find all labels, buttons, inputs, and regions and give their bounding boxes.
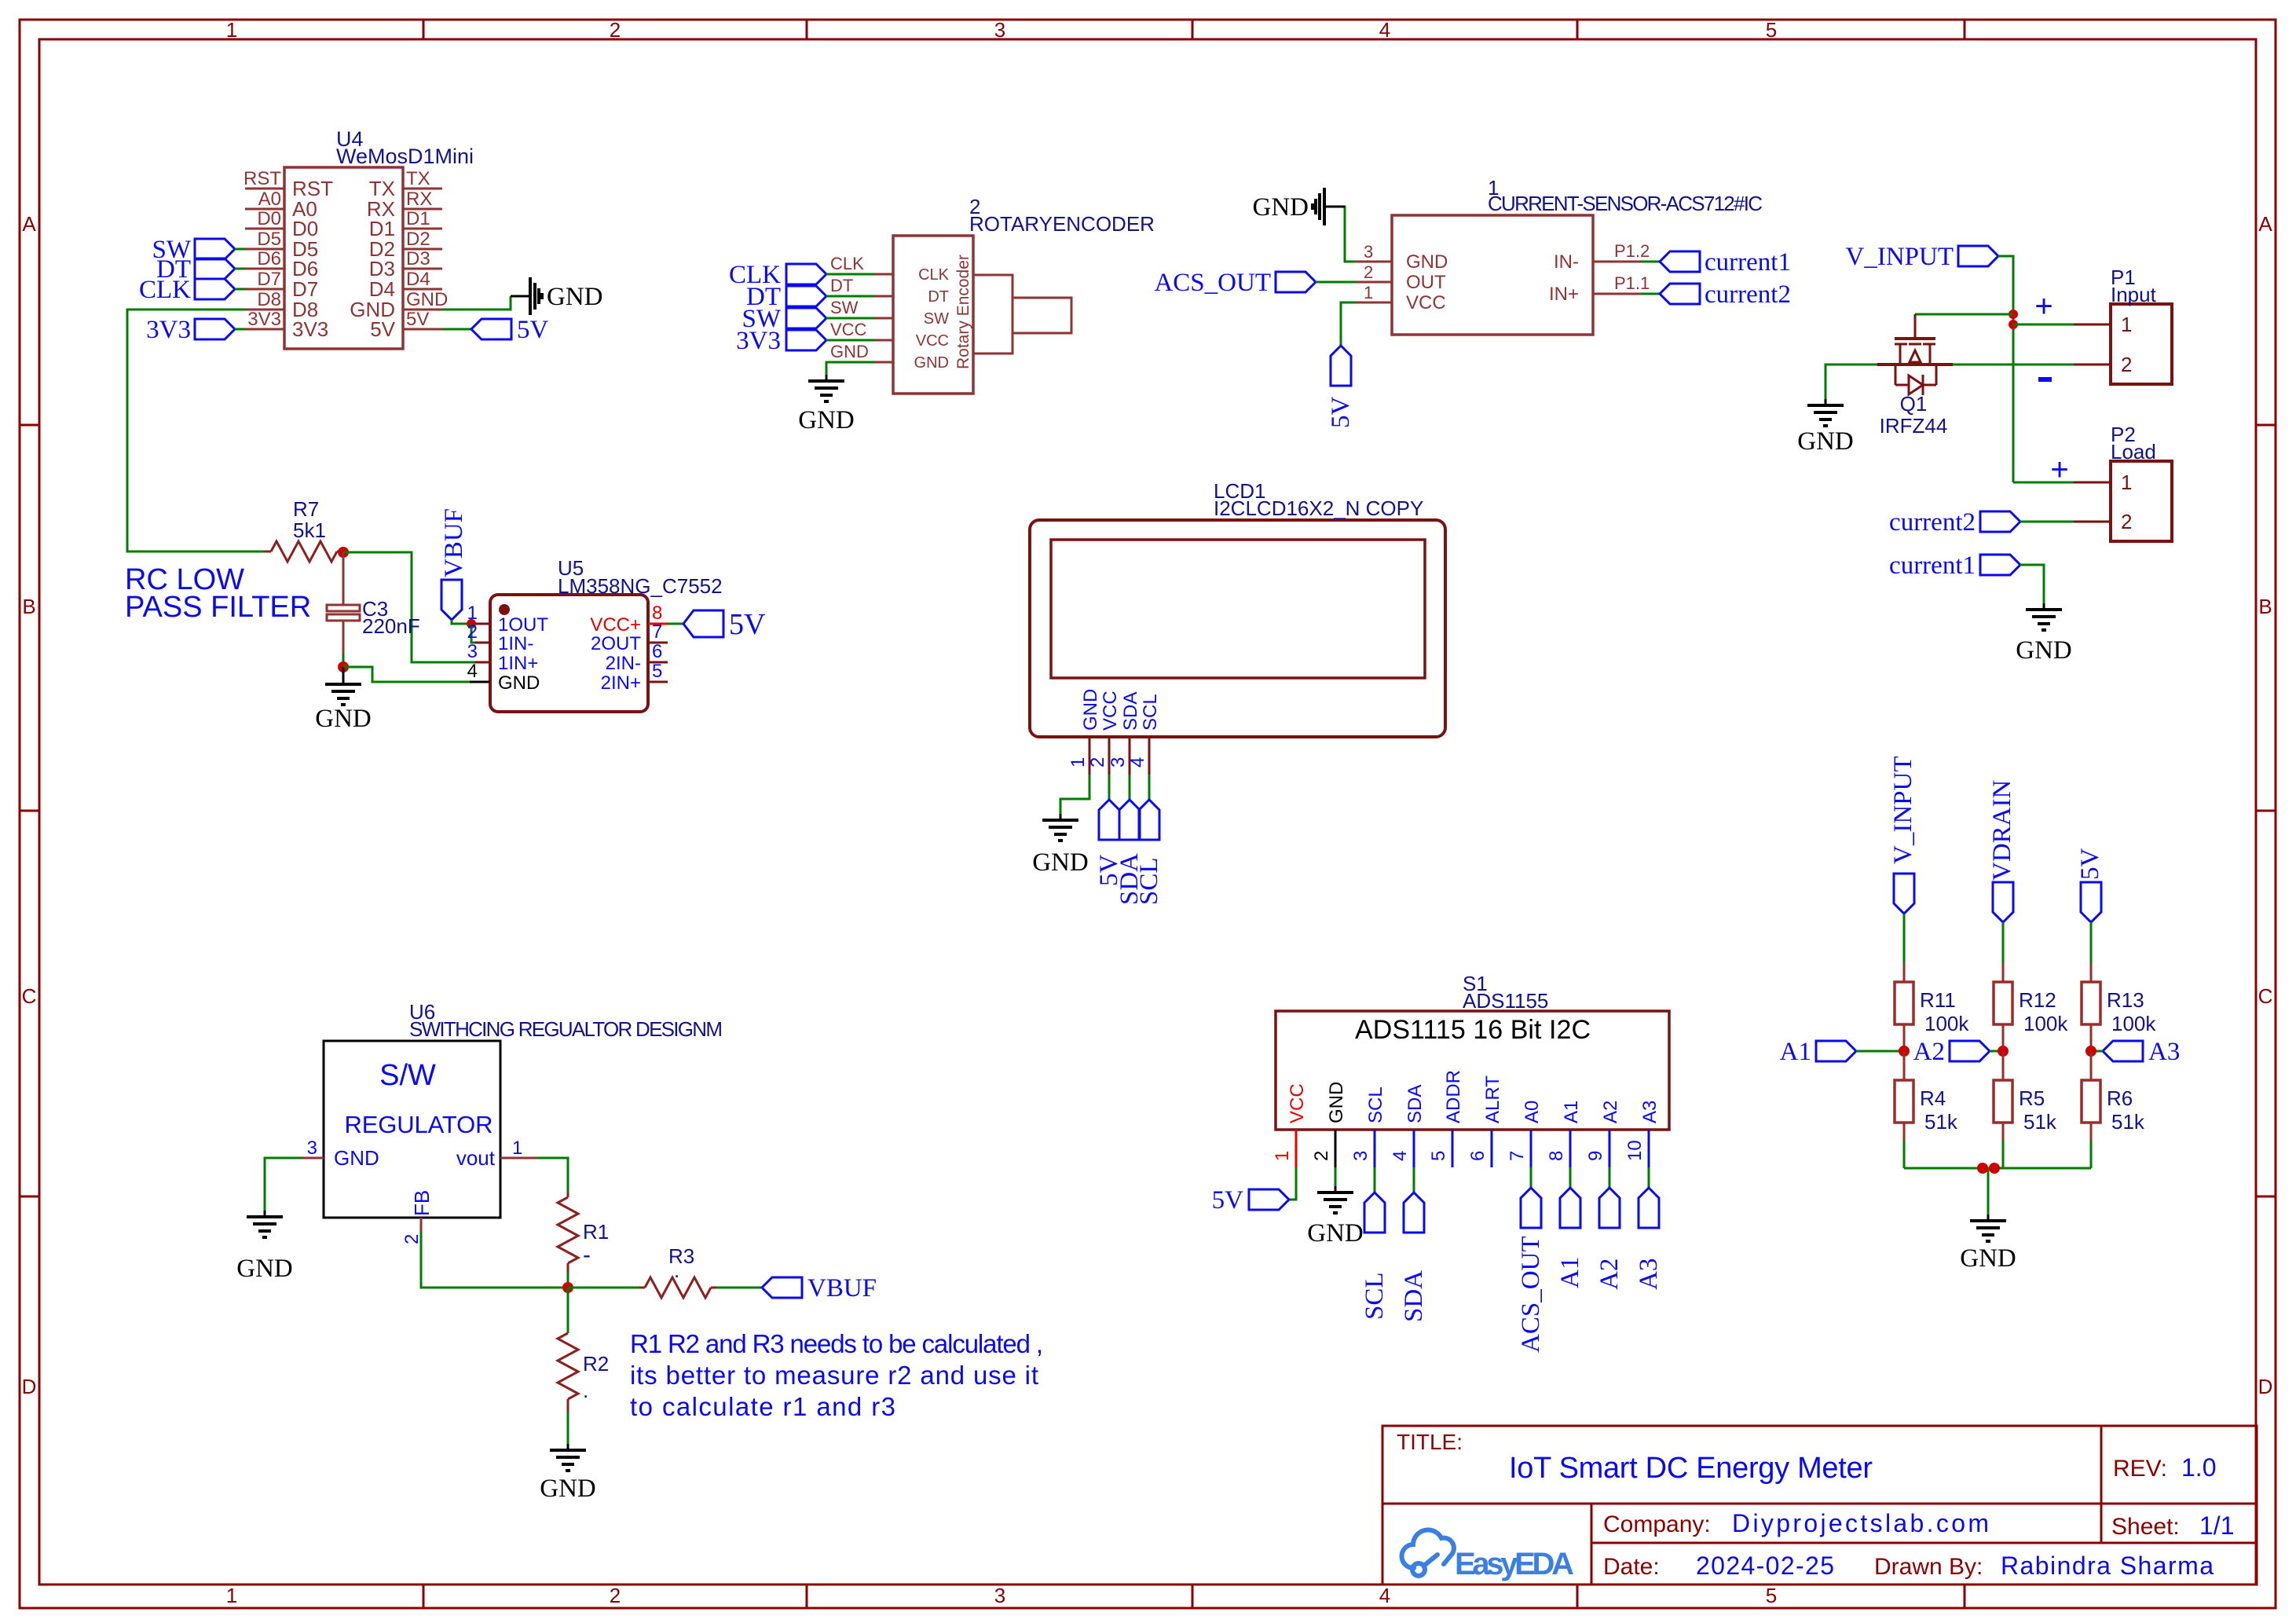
transistor Q1 IRFZ44 bbox=[1877, 314, 1953, 438]
svg-text:SDA: SDA bbox=[1404, 1085, 1426, 1123]
svg-text:3V3: 3V3 bbox=[247, 309, 281, 330]
svg-text:2: 2 bbox=[401, 1234, 423, 1244]
svg-text:A: A bbox=[22, 212, 36, 236]
svg-text:2: 2 bbox=[610, 18, 621, 42]
svg-text:Date:: Date: bbox=[1603, 1554, 1660, 1580]
net flag SW at encoder bbox=[742, 305, 875, 333]
svg-text:TITLE:: TITLE: bbox=[1397, 1430, 1463, 1454]
svg-text:7: 7 bbox=[1507, 1151, 1528, 1161]
node A2 junction bbox=[1998, 1046, 2009, 1057]
svg-text:2: 2 bbox=[1311, 1151, 1332, 1161]
svg-text:GND: GND bbox=[540, 1475, 596, 1503]
svg-text:5V: 5V bbox=[1327, 397, 1355, 429]
svg-text:R1 R2 and R3 needs to be calcu: R1 R2 and R3 needs to be calculated , bbox=[630, 1329, 1043, 1358]
wire vout to R1 bbox=[537, 1158, 568, 1193]
net flag ACS_OUT at ADS bbox=[1517, 1167, 1545, 1353]
svg-text:4: 4 bbox=[1390, 1151, 1411, 1161]
svg-text:D: D bbox=[22, 1375, 37, 1398]
resistor R6 51k bbox=[2082, 1051, 2145, 1141]
wire node to R2 bbox=[567, 1288, 569, 1333]
ground GND at LCD bbox=[1032, 814, 1089, 877]
svg-text:Rabindra Sharma: Rabindra Sharma bbox=[2001, 1552, 2214, 1580]
svg-text:current1: current1 bbox=[1705, 248, 1791, 277]
node V_INPUT/P1 junction bbox=[2009, 320, 2018, 329]
svg-text:100k: 100k bbox=[1924, 1012, 1969, 1035]
wire U6 GND bbox=[265, 1158, 302, 1211]
svg-text:2IN+: 2IN+ bbox=[601, 672, 641, 694]
svg-text:8: 8 bbox=[1546, 1151, 1567, 1161]
svg-text:its better to measure r2 and u: its better to measure r2 and use it bbox=[630, 1361, 1038, 1390]
svg-text:3V3: 3V3 bbox=[736, 327, 781, 355]
node R7/C3 junction bbox=[338, 547, 349, 558]
svg-text:2: 2 bbox=[2121, 353, 2132, 376]
MCU U4 WeMosD1Mini bbox=[244, 127, 474, 349]
wire encoder GND bbox=[826, 362, 874, 375]
svg-text:5: 5 bbox=[1766, 18, 1777, 42]
svg-text:GND: GND bbox=[1307, 1219, 1364, 1247]
net flag SDA at LCD bbox=[1115, 775, 1144, 905]
svg-text:+: + bbox=[2034, 289, 2052, 324]
ground GND at U4 bbox=[511, 277, 603, 315]
net flag current2 at P2 bbox=[1889, 508, 2074, 537]
svg-text:2: 2 bbox=[467, 621, 478, 643]
label minus P1 bbox=[2038, 377, 2052, 382]
svg-text:VCC: VCC bbox=[1287, 1083, 1308, 1123]
svg-text:RST: RST bbox=[244, 168, 281, 189]
svg-text:100k: 100k bbox=[2111, 1012, 2156, 1035]
svg-text:DT: DT bbox=[928, 288, 949, 306]
svg-text:3: 3 bbox=[994, 18, 1005, 42]
svg-text:R1: R1 bbox=[583, 1220, 609, 1244]
svg-text:D2: D2 bbox=[406, 229, 430, 250]
svg-text:GND: GND bbox=[236, 1255, 293, 1283]
svg-text:P1.1: P1.1 bbox=[1614, 273, 1650, 293]
svg-text:CLK: CLK bbox=[918, 266, 950, 284]
svg-text:A2: A2 bbox=[1913, 1038, 1945, 1066]
net flag SCL at ADS bbox=[1360, 1167, 1389, 1320]
svg-text:GND: GND bbox=[1253, 193, 1309, 222]
svg-text:to calculate r1 and r3: to calculate r1 and r3 bbox=[630, 1392, 895, 1421]
svg-text:2: 2 bbox=[610, 1584, 621, 1607]
net flag current1 to GND bbox=[1889, 551, 2044, 603]
svg-text:VCC: VCC bbox=[1100, 691, 1121, 731]
wire V_INPUT vertical bbox=[1998, 256, 2013, 482]
svg-text:A3: A3 bbox=[1639, 1101, 1661, 1123]
wire 5V to R13 bbox=[2090, 922, 2093, 963]
rotary encoder 2 ROTARYENCODER bbox=[830, 195, 1155, 394]
svg-text:D3: D3 bbox=[406, 248, 430, 269]
svg-text:GND: GND bbox=[830, 342, 869, 361]
EasyEDA logo bbox=[1401, 1530, 1574, 1581]
svg-text:2IN-: 2IN- bbox=[606, 653, 641, 674]
svg-text:CLK: CLK bbox=[830, 254, 864, 273]
svg-text:A2: A2 bbox=[1595, 1258, 1624, 1290]
regulator U6 SWITHCING REGUALTOR DESIGNM bbox=[302, 1000, 723, 1244]
svg-text:1: 1 bbox=[226, 18, 237, 42]
svg-text:ACS_OUT: ACS_OUT bbox=[1517, 1236, 1545, 1353]
ground GND at divider bbox=[1960, 1215, 2016, 1273]
svg-text:TX: TX bbox=[406, 168, 430, 189]
svg-text:P1.2: P1.2 bbox=[1614, 241, 1650, 261]
svg-text:GND: GND bbox=[798, 406, 855, 434]
svg-text:REGULATOR: REGULATOR bbox=[345, 1111, 493, 1138]
resistor R11 100k bbox=[1895, 963, 1969, 1051]
svg-text:.: . bbox=[674, 1258, 679, 1282]
net flag current2 at ACS bbox=[1641, 280, 1791, 309]
svg-text:SDA: SDA bbox=[1120, 692, 1141, 731]
svg-text:R4: R4 bbox=[1920, 1086, 1946, 1110]
ground GND at U6 bbox=[236, 1211, 293, 1283]
net flag VDRAIN bbox=[1988, 780, 2016, 922]
note RC LOW PASS FILTER bbox=[125, 563, 311, 624]
wire U4 GND bbox=[442, 296, 511, 310]
svg-text:VDRAIN: VDRAIN bbox=[1988, 780, 2016, 881]
svg-text:GND: GND bbox=[315, 705, 372, 733]
svg-text:1: 1 bbox=[2121, 313, 2132, 336]
wire junction to P1 pin1 bbox=[2013, 324, 2074, 326]
svg-text:2024-02-25: 2024-02-25 bbox=[1696, 1552, 1834, 1580]
svg-text:VBUF: VBUF bbox=[807, 1274, 877, 1302]
ground GND at encoder bbox=[798, 375, 855, 434]
svg-text:EasyEDA: EasyEDA bbox=[1455, 1547, 1574, 1581]
svg-text:R11: R11 bbox=[1920, 988, 1956, 1012]
svg-text:Diyprojectslab.com: Diyprojectslab.com bbox=[1732, 1509, 1989, 1537]
resistor R1 bbox=[558, 1193, 609, 1273]
wire divider ground bus bbox=[1904, 1168, 2091, 1215]
svg-text:Company:: Company: bbox=[1603, 1511, 1711, 1537]
svg-text:A0: A0 bbox=[1522, 1101, 1543, 1123]
svg-text:3: 3 bbox=[994, 1584, 1005, 1607]
svg-text:OUT: OUT bbox=[1406, 272, 1446, 293]
svg-text:Sheet:: Sheet: bbox=[2111, 1514, 2180, 1540]
ground GND at Q1 bbox=[1797, 399, 1854, 456]
wire C3 to ground node bbox=[342, 654, 345, 667]
svg-text:V_INPUT: V_INPUT bbox=[1889, 757, 1917, 865]
svg-text:GND: GND bbox=[547, 283, 603, 311]
svg-text:6: 6 bbox=[652, 641, 662, 662]
svg-text:ADDR: ADDR bbox=[1443, 1070, 1464, 1123]
net flag 5V at ACS bbox=[1327, 346, 1355, 428]
svg-text:A1: A1 bbox=[1556, 1257, 1584, 1288]
svg-text:D7: D7 bbox=[257, 269, 281, 290]
svg-text:4: 4 bbox=[467, 661, 478, 682]
svg-text:R7: R7 bbox=[293, 497, 319, 521]
label plus P2 bbox=[2050, 452, 2068, 487]
wire FB to node bbox=[421, 1232, 568, 1288]
svg-text:Rotary Encoder: Rotary Encoder bbox=[954, 255, 972, 369]
svg-text:VCC: VCC bbox=[1406, 292, 1446, 313]
svg-text:A0: A0 bbox=[258, 189, 281, 210]
node C3/GND junction bbox=[338, 661, 349, 672]
svg-text:current1: current1 bbox=[1889, 551, 1976, 580]
resistor R12 100k bbox=[1994, 963, 2068, 1051]
svg-text:ADS1155: ADS1155 bbox=[1463, 989, 1548, 1013]
svg-text:51k: 51k bbox=[2023, 1110, 2057, 1134]
svg-text:SCL: SCL bbox=[1360, 1272, 1389, 1320]
svg-text:-: - bbox=[583, 1242, 591, 1268]
wire V_INPUT to R11 bbox=[1903, 914, 1906, 963]
wire D8 to R7 bbox=[127, 310, 265, 551]
wire R6 to bus bbox=[2090, 1141, 2093, 1168]
net flag current1 at ACS bbox=[1641, 248, 1791, 277]
svg-text:5V: 5V bbox=[1212, 1186, 1244, 1215]
wire R5 to bus bbox=[2002, 1141, 2005, 1168]
svg-text:.: . bbox=[583, 1379, 588, 1402]
connector P2 Load bbox=[2074, 423, 2172, 541]
svg-text:51k: 51k bbox=[2111, 1110, 2145, 1134]
net flag 5V at divider bbox=[2076, 848, 2104, 923]
svg-text:10: 10 bbox=[1624, 1140, 1646, 1161]
svg-text:VCC: VCC bbox=[830, 320, 867, 339]
svg-text:CURRENT-SENSOR-ACS712#IC: CURRENT-SENSOR-ACS712#IC bbox=[1488, 192, 1763, 215]
node A3 junction bbox=[2085, 1046, 2096, 1057]
svg-text:D4: D4 bbox=[406, 269, 430, 290]
svg-text:D1: D1 bbox=[406, 208, 430, 229]
net flag A3 at ADS bbox=[1635, 1167, 1663, 1290]
wire LCD GND bbox=[1060, 775, 1089, 814]
svg-text:+: + bbox=[2050, 452, 2068, 487]
svg-text:7: 7 bbox=[652, 621, 662, 643]
svg-text:GND: GND bbox=[1797, 427, 1854, 456]
wire V_INPUT to P2 pin1 bbox=[2013, 482, 2074, 484]
svg-text:R2: R2 bbox=[583, 1352, 609, 1376]
wire ground node to U5 GND pin bbox=[343, 667, 470, 682]
svg-text:1OUT: 1OUT bbox=[498, 614, 548, 636]
node bus junction left bbox=[1977, 1163, 1988, 1174]
svg-text:LM358NG_C7552: LM358NG_C7552 bbox=[558, 574, 723, 598]
svg-text:A3: A3 bbox=[1635, 1258, 1663, 1290]
svg-text:GND: GND bbox=[1080, 689, 1101, 731]
wire U5 feedback 1OUT to 1IN- bbox=[471, 624, 475, 643]
svg-text:3: 3 bbox=[467, 641, 478, 662]
net flag CLK at encoder bbox=[729, 261, 874, 289]
svg-text:A3: A3 bbox=[2148, 1038, 2180, 1066]
svg-text:6: 6 bbox=[1467, 1151, 1489, 1161]
svg-text:1: 1 bbox=[467, 603, 478, 624]
svg-text:GND: GND bbox=[406, 289, 448, 310]
svg-text:Q1: Q1 bbox=[1900, 392, 1928, 416]
wire VDRAIN to R12 bbox=[2002, 922, 2005, 963]
label plus P1 bbox=[2034, 289, 2052, 324]
svg-text:SCL: SCL bbox=[1135, 857, 1163, 905]
resistor R4 51k bbox=[1895, 1051, 1958, 1141]
svg-text:5: 5 bbox=[1428, 1151, 1449, 1161]
svg-text:5V: 5V bbox=[370, 317, 395, 341]
net flag A3 bbox=[2091, 1038, 2180, 1066]
resistor R3 bbox=[639, 1244, 716, 1298]
net flag 5V at LCD bbox=[1095, 775, 1123, 886]
svg-text:SCL: SCL bbox=[1140, 694, 1161, 731]
svg-text:5: 5 bbox=[652, 661, 662, 682]
svg-text:1IN+: 1IN+ bbox=[498, 653, 538, 674]
svg-text:WeMosD1Mini: WeMosD1Mini bbox=[336, 145, 474, 168]
ground GND at ACS bbox=[1253, 188, 1346, 225]
svg-text:1: 1 bbox=[226, 1584, 237, 1607]
svg-text:REV:: REV: bbox=[2113, 1456, 2167, 1482]
net flag SCL at LCD bbox=[1135, 775, 1163, 905]
svg-text:DT: DT bbox=[830, 276, 853, 295]
ground GND at ADS bbox=[1307, 1186, 1364, 1247]
wire ADS GND bbox=[1335, 1167, 1337, 1186]
net flag VBUF bbox=[762, 1274, 877, 1302]
svg-text:GND: GND bbox=[1032, 848, 1089, 877]
resistor R2 bbox=[558, 1333, 609, 1412]
net flag A2 bbox=[1913, 1038, 2003, 1066]
svg-text:SW: SW bbox=[830, 298, 859, 317]
net flag ACS_OUT bbox=[1154, 269, 1356, 297]
svg-text:51k: 51k bbox=[1924, 1110, 1958, 1134]
wire R2 to GND bbox=[567, 1412, 569, 1444]
net flag DT at encoder bbox=[746, 283, 874, 311]
svg-text:IN-: IN- bbox=[1554, 251, 1579, 273]
svg-text:4: 4 bbox=[1379, 1584, 1390, 1607]
net flag A2 at ADS bbox=[1595, 1167, 1624, 1290]
svg-text:GND: GND bbox=[1406, 251, 1448, 273]
svg-text:220nF: 220nF bbox=[362, 614, 420, 638]
svg-text:GND: GND bbox=[1326, 1082, 1347, 1123]
svg-text:R13: R13 bbox=[2107, 988, 2144, 1012]
svg-text:ALRT: ALRT bbox=[1482, 1075, 1503, 1123]
svg-text:3V3: 3V3 bbox=[292, 317, 328, 341]
svg-text:A: A bbox=[2258, 212, 2272, 236]
svg-text:1: 1 bbox=[1272, 1151, 1293, 1161]
svg-text:Drawn By:: Drawn By: bbox=[1874, 1554, 1983, 1580]
wire ACS GND bbox=[1327, 207, 1356, 262]
svg-text:1/1: 1/1 bbox=[2199, 1511, 2234, 1540]
svg-text:B: B bbox=[22, 595, 35, 618]
svg-text:2: 2 bbox=[1087, 757, 1108, 768]
svg-text:1: 1 bbox=[1067, 757, 1089, 768]
wire node to U5 1IN+ bbox=[343, 552, 475, 662]
net flag V_INPUT bbox=[1846, 243, 1999, 271]
resistor R13 100k bbox=[2082, 963, 2156, 1051]
wire junction to Q1 bbox=[1915, 313, 2013, 316]
svg-text:Input: Input bbox=[2111, 283, 2157, 306]
svg-text:2OUT: 2OUT bbox=[591, 633, 641, 654]
op-amp U5 LM358NG_C7552 bbox=[467, 556, 723, 712]
svg-text:VCC: VCC bbox=[916, 332, 949, 350]
ground GND below C3 bbox=[315, 667, 372, 733]
current sensor 1 CURRENT-SENSOR-ACS712#IC bbox=[1356, 176, 1763, 335]
svg-text:4: 4 bbox=[1379, 18, 1390, 42]
net flag 5V at U4 bbox=[471, 316, 549, 344]
ground GND below R2 bbox=[540, 1444, 596, 1503]
svg-text:9: 9 bbox=[1585, 1151, 1606, 1161]
resistor R7 5k1 bbox=[265, 497, 343, 562]
wire R1 to node bbox=[567, 1273, 569, 1288]
svg-text:3: 3 bbox=[1364, 242, 1373, 262]
svg-text:GND: GND bbox=[2016, 636, 2072, 665]
svg-text:1: 1 bbox=[1364, 283, 1373, 302]
svg-text:current2: current2 bbox=[1705, 280, 1791, 309]
node A1 junction bbox=[1899, 1046, 1910, 1057]
net flag SDA at ADS bbox=[1400, 1167, 1428, 1322]
svg-text:current2: current2 bbox=[1889, 508, 1976, 537]
svg-text:2: 2 bbox=[1364, 262, 1373, 282]
capacitor C3 220nF bbox=[327, 552, 420, 654]
svg-text:IN+: IN+ bbox=[1549, 284, 1579, 305]
svg-text:PASS FILTER: PASS FILTER bbox=[125, 591, 311, 624]
svg-text:VBUF: VBUF bbox=[440, 508, 468, 577]
net flag CLK bbox=[139, 276, 245, 304]
wire ACS VCC to 5V bbox=[1341, 302, 1356, 346]
LCD LCD1 I2CLCD16X2_N COPY bbox=[1030, 479, 1445, 775]
svg-text:D6: D6 bbox=[257, 248, 281, 269]
svg-text:1: 1 bbox=[2121, 471, 2132, 494]
svg-text:I2CLCD16X2_N COPY: I2CLCD16X2_N COPY bbox=[1214, 496, 1423, 520]
svg-text:100k: 100k bbox=[2023, 1012, 2068, 1035]
svg-text:R5: R5 bbox=[2019, 1086, 2045, 1110]
svg-text:D5: D5 bbox=[257, 229, 281, 250]
net flag V_INPUT at divider bbox=[1889, 757, 1917, 914]
svg-text:GND: GND bbox=[1960, 1244, 2016, 1273]
svg-text:VCC+: VCC+ bbox=[590, 614, 641, 636]
net flag A1 bbox=[1780, 1038, 1904, 1066]
svg-text:R6: R6 bbox=[2107, 1086, 2133, 1110]
svg-text:3: 3 bbox=[1108, 757, 1129, 768]
svg-text:3V3: 3V3 bbox=[146, 316, 191, 344]
svg-text:FB: FB bbox=[410, 1190, 434, 1216]
net flag 3V3 bbox=[146, 316, 245, 344]
svg-text:RX: RX bbox=[406, 189, 432, 210]
svg-text:5V: 5V bbox=[517, 316, 549, 344]
svg-text:1.0: 1.0 bbox=[2181, 1453, 2216, 1482]
resistor R5 51k bbox=[1994, 1051, 2057, 1141]
net flag VBUF at U5 bbox=[440, 508, 470, 624]
svg-text:SW: SW bbox=[924, 310, 949, 328]
svg-text:Load: Load bbox=[2111, 440, 2156, 463]
svg-text:S/W: S/W bbox=[379, 1059, 436, 1092]
note resistor calculation bbox=[630, 1329, 1043, 1421]
wire Q1 to GND bbox=[1825, 365, 1877, 399]
svg-text:V_INPUT: V_INPUT bbox=[1846, 243, 1954, 271]
svg-text:5: 5 bbox=[1766, 1584, 1777, 1607]
svg-text:R12: R12 bbox=[2019, 988, 2056, 1012]
svg-text:3: 3 bbox=[1350, 1151, 1371, 1161]
svg-text:1: 1 bbox=[512, 1138, 522, 1159]
svg-text:4: 4 bbox=[1127, 757, 1148, 768]
wire R3 to VBUF bbox=[716, 1287, 762, 1289]
ground GND below P2 bbox=[2016, 603, 2072, 665]
wire U5 VCC to 5V bbox=[668, 623, 683, 625]
title block bbox=[1382, 1426, 2257, 1585]
svg-text:C: C bbox=[2258, 984, 2273, 1008]
svg-text:5V: 5V bbox=[406, 309, 429, 330]
connector P1 Input bbox=[2074, 266, 2172, 384]
svg-text:B: B bbox=[2258, 595, 2272, 618]
net flag 3V3 at encoder bbox=[736, 327, 874, 355]
svg-text:SDA: SDA bbox=[1400, 1270, 1428, 1322]
svg-text:8: 8 bbox=[652, 603, 662, 624]
svg-text:A1: A1 bbox=[1780, 1038, 1811, 1066]
node V_INPUT/Q1 junction bbox=[2009, 310, 2018, 319]
svg-text:A1: A1 bbox=[1561, 1101, 1582, 1123]
svg-text:SWITHCING REGUALTOR DESIGNM: SWITHCING REGUALTOR DESIGNM bbox=[409, 1017, 723, 1041]
ADC S1 ADS1155 bbox=[1272, 972, 1669, 1167]
net flag A1 at ADS bbox=[1556, 1167, 1584, 1288]
svg-text:IoT Smart DC Energy Meter: IoT Smart DC Energy Meter bbox=[1509, 1452, 1873, 1485]
svg-text:D0: D0 bbox=[257, 208, 281, 229]
node feedback junction bbox=[562, 1282, 573, 1293]
net flag DT bbox=[156, 255, 245, 284]
svg-text:1IN-: 1IN- bbox=[498, 633, 533, 654]
svg-text:ADS1115 16 Bit I2C: ADS1115 16 Bit I2C bbox=[1355, 1015, 1591, 1045]
svg-text:GND: GND bbox=[498, 672, 540, 694]
svg-text:3: 3 bbox=[307, 1138, 317, 1159]
svg-text:A2: A2 bbox=[1600, 1101, 1621, 1123]
svg-text:D: D bbox=[2258, 1375, 2273, 1398]
svg-text:5V: 5V bbox=[2076, 848, 2104, 881]
